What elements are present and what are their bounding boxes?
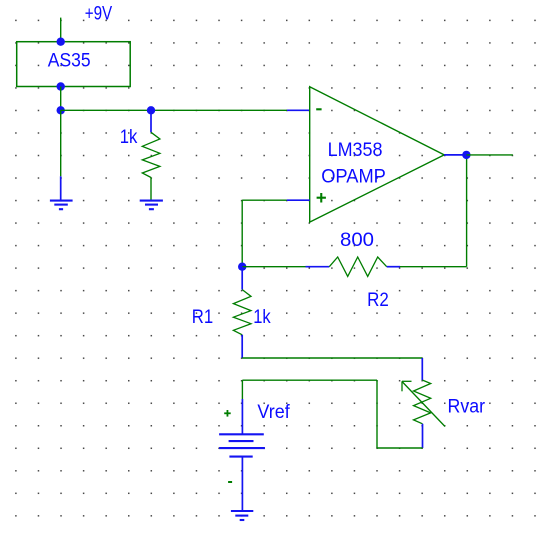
svg-text:LM358: LM358 (328, 139, 383, 161)
pin lead Vref positive (241, 399, 243, 434)
ground symbol under Vref (231, 511, 253, 520)
junction dot left node (57, 106, 65, 114)
pin lead 1k resistor top (150, 110, 152, 132)
svg-text:AS35: AS35 (48, 50, 91, 72)
junction dot 1k resistor top (147, 106, 155, 114)
wire 1k bottom (150, 178, 152, 201)
wire Vref top horizontal (242, 379, 377, 381)
resistor R2 zigzag (329, 257, 386, 276)
wire R1 bottom to Rvar top (242, 357, 422, 359)
resistor Rvar zigzag (414, 380, 431, 424)
svg-text:R2: R2 (367, 289, 389, 311)
pin lead R1 top (241, 267, 243, 290)
svg-text:Vref: Vref (257, 401, 290, 423)
arrow of Rvar (402, 381, 445, 426)
svg-text:1k: 1k (253, 306, 271, 328)
pin lead op-amp non-inverting input (287, 199, 310, 201)
wire left branch down (60, 110, 62, 176)
minus marker op-amp (316, 108, 321, 110)
pin lead R2 left (306, 266, 330, 268)
resistor 1k (pull-down) zigzag (142, 132, 160, 177)
junction dot AS35 top pin (57, 38, 65, 46)
battery Vref plates (219, 434, 265, 456)
plus marker op-amp (317, 193, 326, 203)
pin lead R1 bottom (241, 335, 243, 358)
pin lead op-amp inverting input (287, 109, 310, 111)
wire feedback right segment (400, 266, 467, 268)
pin lead R2 right (387, 266, 400, 268)
pin lead op-amp output (444, 154, 466, 156)
pin lead Rvar top (421, 358, 423, 380)
wire Rvar bottom horizontal (377, 447, 423, 449)
wire plus input vertical (241, 200, 243, 267)
pin lead Vref negative (241, 457, 243, 511)
wire feedback left segment (242, 266, 305, 268)
junction dot feedback node (238, 263, 246, 271)
ground symbol under 1k (140, 201, 163, 210)
svg-text:+9V: +9V (85, 3, 113, 25)
minus marker Vref (228, 481, 232, 483)
resistor R1 zigzag (233, 290, 251, 335)
svg-text:1k: 1k (120, 126, 138, 148)
plus marker Vref (224, 410, 231, 417)
wire AS35 bottom to node row (60, 87, 62, 111)
svg-text:800: 800 (340, 229, 374, 251)
junction dot AS35 bottom pin (57, 82, 65, 90)
wire Vref loop vertical (376, 380, 378, 448)
wire feedback vertical to output (466, 155, 468, 267)
wire +9V stem (60, 18, 62, 42)
component AS35 box (17, 42, 131, 87)
svg-text:Rvar: Rvar (448, 396, 486, 418)
ground symbol left (50, 201, 73, 210)
wire Vref corner down (241, 380, 243, 399)
wire output to right (466, 154, 513, 156)
op-amp U1 triangle (310, 87, 445, 222)
ground stem left (60, 176, 62, 200)
svg-text:R1: R1 (192, 306, 213, 328)
wire main horizontal to op-amp (61, 109, 287, 111)
wire plus input horizontal (242, 199, 287, 201)
svg-text:OPAMP: OPAMP (321, 166, 386, 188)
junction dot output node (462, 151, 470, 159)
pin lead Rvar bottom (422, 424, 424, 448)
